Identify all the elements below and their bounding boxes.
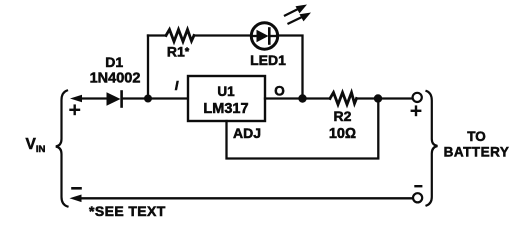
node junction input — [144, 95, 152, 103]
battery brace right — [427, 91, 438, 206]
svg-text:R1*: R1* — [167, 44, 190, 60]
resistor R2 — [330, 93, 357, 105]
wire R2 to + terminal — [357, 97, 413, 99]
polarity - right — [416, 185, 422, 187]
svg-text:I: I — [175, 78, 179, 93]
svg-text:*SEE TEXT: *SEE TEXT — [89, 203, 166, 219]
svg-text:D1: D1 — [105, 54, 123, 70]
LED light arrows — [285, 5, 311, 24]
svg-text:BATTERY: BATTERY — [444, 144, 510, 159]
wire to R1 — [148, 34, 166, 36]
op-amp U1 LM317 regulator box — [188, 76, 265, 121]
svg-text:LM317: LM317 — [203, 101, 248, 117]
polarity - left — [73, 187, 81, 190]
svg-text:LED1: LED1 — [250, 52, 286, 68]
wire top input with arrow to Vin+ — [70, 95, 107, 103]
wire U1 output — [265, 97, 330, 99]
wire ADJ loop — [227, 99, 379, 159]
node junction R2/ADJ — [374, 94, 382, 102]
wire bottom return with arrow — [70, 195, 413, 203]
wire D1 to U1 input — [123, 97, 189, 99]
svg-text:ADJ: ADJ — [233, 125, 261, 141]
node junction LED/output — [298, 94, 306, 102]
Vin brace left — [56, 91, 68, 207]
terminal + output circle — [413, 93, 422, 102]
svg-text:10Ω: 10Ω — [329, 126, 356, 142]
svg-text:TO: TO — [467, 129, 486, 144]
svg-text:O: O — [274, 84, 285, 99]
polarity + right — [412, 107, 420, 115]
svg-text:R2: R2 — [334, 108, 352, 124]
wire vertical up to R1 branch — [147, 36, 149, 99]
svg-text:VIN: VIN — [26, 136, 46, 155]
LED LED1 — [251, 23, 277, 49]
terminal - output circle — [413, 193, 422, 202]
resistor R1 — [166, 30, 194, 42]
diode D1 — [107, 92, 122, 107]
polarity + left — [71, 106, 80, 114]
wire LED to output node — [277, 36, 303, 99]
wire R1 to LED1 — [194, 34, 251, 36]
svg-text:U1: U1 — [217, 84, 235, 99]
svg-text:1N4002: 1N4002 — [90, 71, 141, 87]
